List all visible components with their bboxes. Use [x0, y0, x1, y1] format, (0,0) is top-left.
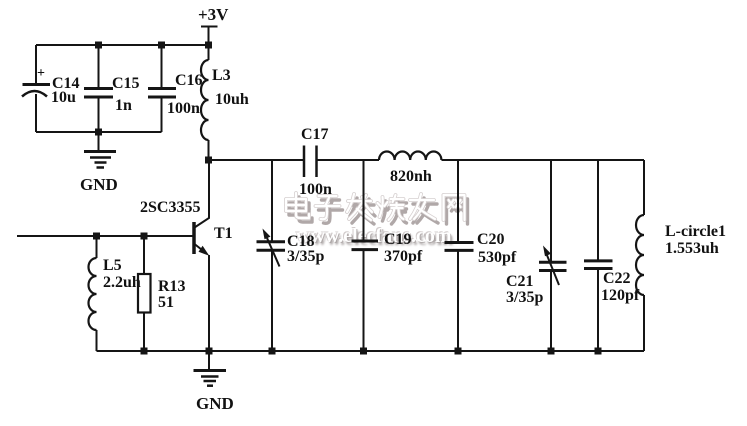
node bottom-rail C15 junction: [95, 129, 102, 136]
node bottom C18 junction: [269, 348, 276, 355]
svg-text:820nh: 820nh: [390, 168, 432, 185]
svg-text:C19: C19: [384, 231, 412, 248]
svg-text:GND: GND: [196, 394, 234, 413]
wire 820nh to right end: [442, 159, 645, 161]
svg-text:T1: T1: [214, 225, 233, 242]
svg-text:L3: L3: [212, 67, 231, 84]
svg-text:100n: 100n: [299, 181, 332, 198]
svg-text:3/35p: 3/35p: [506, 289, 543, 306]
svg-text:120pf: 120pf: [601, 287, 640, 304]
svg-text:+: +: [37, 66, 45, 81]
node base R13 junction: [141, 233, 148, 240]
capacitor C18 variable: [257, 160, 325, 351]
wire C17 to 820nh: [317, 159, 380, 161]
resistor R13: [138, 236, 186, 351]
svg-text:C22: C22: [603, 270, 631, 287]
node bottom C19 junction: [360, 348, 367, 355]
capacitor C20: [445, 160, 517, 351]
svg-text:530pf: 530pf: [478, 249, 517, 266]
ground GND2: [194, 351, 234, 413]
svg-text:C21: C21: [506, 273, 534, 290]
svg-text:370pf: 370pf: [384, 248, 423, 265]
svg-text:C15: C15: [112, 75, 140, 92]
inductor L3: [201, 45, 249, 160]
capacitor C21 variable: [506, 160, 567, 351]
node top-rail C16 junction: [158, 42, 165, 49]
svg-text:www.elecfans.com: www.elecfans.com: [296, 225, 452, 247]
svg-text:2.2uh: 2.2uh: [103, 274, 141, 291]
capacitor C17: [299, 126, 332, 198]
transistor T1: [140, 160, 233, 351]
svg-text:1.553uh: 1.553uh: [665, 240, 719, 257]
svg-text:1n: 1n: [115, 97, 132, 114]
node top-rail C15 junction: [95, 42, 102, 49]
ground GND1: [80, 132, 118, 194]
power +3V: [198, 5, 229, 45]
capacitor C16: [148, 45, 203, 132]
svg-text:R13: R13: [158, 278, 186, 295]
svg-text:C16: C16: [175, 72, 203, 89]
inductor L5: [89, 236, 141, 351]
svg-text:+3V: +3V: [198, 5, 229, 24]
inductor L-circle1: [636, 160, 726, 351]
node bottom R13 junction: [141, 348, 148, 355]
node bottom emitter junction: [206, 348, 213, 355]
node base L5 junction: [93, 233, 100, 240]
svg-text:L5: L5: [103, 257, 122, 274]
svg-text:2SC3355: 2SC3355: [140, 199, 200, 216]
svg-text:GND: GND: [80, 175, 118, 194]
svg-text:51: 51: [158, 294, 174, 311]
capacitor C22: [584, 160, 640, 351]
svg-text:C17: C17: [301, 126, 329, 143]
node bottom C20 junction: [455, 348, 462, 355]
node top-rail L3 junction: [205, 42, 212, 49]
inductor 820nh: [379, 152, 441, 185]
capacitor C14: [22, 45, 80, 132]
svg-text:3/35p: 3/35p: [287, 248, 324, 265]
node bottom C22 junction: [595, 348, 602, 355]
wire base input: [17, 235, 194, 237]
svg-text:100n: 100n: [167, 100, 200, 117]
svg-text:C20: C20: [477, 231, 505, 248]
capacitor C15: [84, 45, 140, 132]
capacitor C19: [352, 160, 423, 351]
node collector junction: [205, 157, 212, 164]
wire bottom rail of C14/C15/C16: [36, 131, 162, 133]
node bottom C21 junction: [548, 348, 555, 355]
wire bottom rail: [97, 350, 645, 352]
svg-text:10u: 10u: [51, 89, 76, 106]
wire collector rail to C17: [209, 159, 304, 161]
wire top rail: [36, 44, 209, 46]
svg-text:10uh: 10uh: [215, 91, 249, 108]
svg-text:L-circle1: L-circle1: [665, 223, 726, 240]
